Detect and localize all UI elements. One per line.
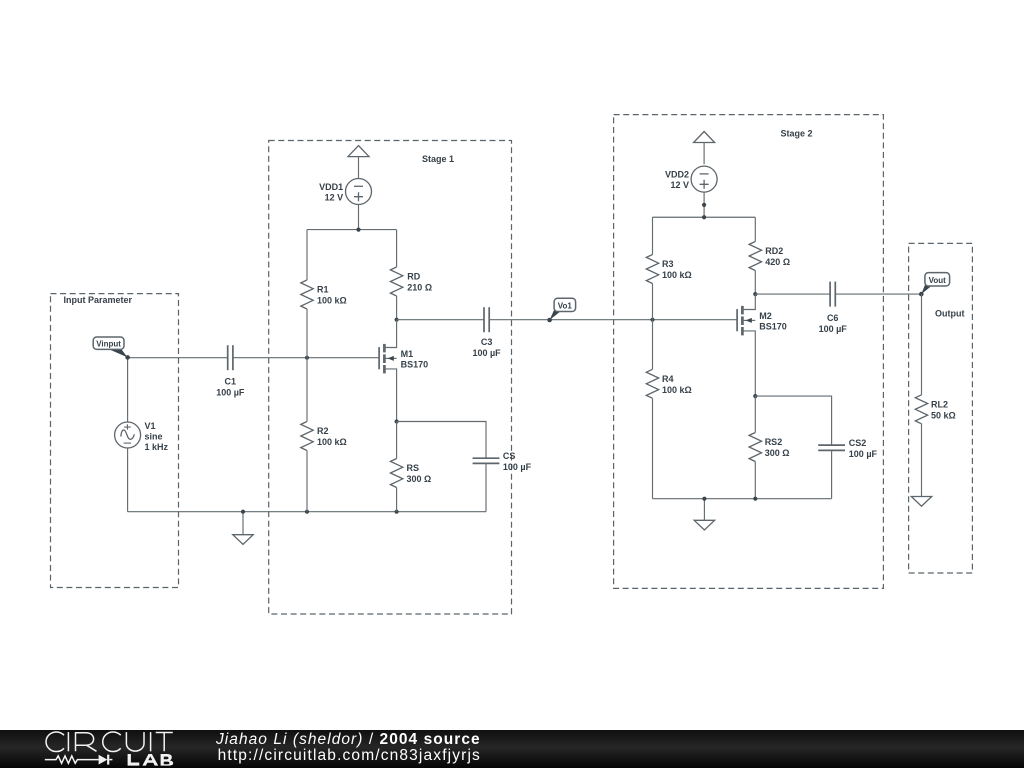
resistor R4 — [646, 320, 691, 499]
node: R2 bottom — [305, 510, 309, 514]
wire: source node to CS — [397, 422, 486, 459]
node: VDD2 tap — [702, 215, 706, 219]
wire: Vinput node to C1 — [128, 357, 228, 359]
resistor RS — [390, 422, 431, 512]
resistor R2 — [301, 358, 347, 512]
svg-text:Jiahao Li (sheldor) / 2004 sou: Jiahao Li (sheldor) / 2004 source — [215, 731, 481, 748]
capacitor C1 — [216, 345, 245, 397]
wire: C6 to Vout node — [835, 293, 921, 295]
wire: Vinput node down to V1 — [127, 358, 129, 422]
enclosure: Output box — [909, 243, 973, 573]
wire: source node to CS2 — [755, 396, 831, 445]
wire: VDD2 to supply rail — [703, 192, 705, 217]
transistor M1 — [379, 320, 428, 422]
flag Vinput — [93, 337, 130, 360]
node: VDD2 pin joint — [702, 203, 706, 207]
capacitor C6 — [819, 282, 848, 334]
CircuitLab logo — [46, 732, 173, 752]
svg-text:http://circuitlab.com/cn83jaxf: http://circuitlab.com/cn83jaxfjyrjs — [218, 747, 481, 764]
wire: C3 to M2 gate — [489, 319, 737, 321]
node: M2 source — [753, 394, 757, 398]
wire: stage 2 supply rail — [653, 216, 756, 218]
node: VDD1 tap — [356, 228, 360, 232]
logo LAB letters — [128, 754, 174, 766]
wire: CS2 to ground rail — [831, 450, 833, 498]
footer bar — [0, 730, 1024, 768]
enclosure: Stage 1 box — [269, 141, 512, 615]
resistor RD2 — [749, 217, 790, 294]
node: RS bottom — [395, 510, 399, 514]
node: RS2 bottom — [753, 497, 757, 501]
wire: VDD1 to supply rail — [358, 205, 360, 230]
node: gate / R1 / R2 junction — [305, 356, 309, 360]
enclosure: Stage 2 box — [614, 115, 884, 589]
wire: stage 1 ground rail — [128, 511, 486, 513]
resistor RS2 — [749, 396, 789, 499]
wire: C1 to M1 gate — [233, 357, 379, 359]
voltage source V1 — [115, 421, 169, 452]
node: M1 drain / output — [395, 318, 399, 322]
node: R3 / R4 / M2 gate junction — [650, 318, 654, 322]
node: M1 source — [395, 419, 399, 423]
voltage source VDD1 — [319, 179, 371, 205]
wire: stage 1 supply rail — [307, 229, 397, 231]
wire: drain node to C6 — [755, 293, 830, 295]
ground (output) — [911, 497, 931, 507]
capacitor CS2 — [818, 438, 877, 459]
flag Vout — [919, 273, 950, 297]
wire: stage 2 ground rail — [653, 498, 832, 500]
flag Vo1 — [547, 298, 575, 322]
capacitor CS — [473, 451, 532, 472]
power flag VDD1 — [348, 146, 369, 179]
power flag VDD2 — [694, 132, 715, 165]
resistor RD — [390, 230, 432, 320]
wire: V1 to ground rail — [127, 448, 129, 512]
resistor R3 — [646, 217, 691, 319]
wire: CS to ground rail — [485, 463, 487, 511]
resistor R1 — [301, 230, 347, 358]
ground (input stage) — [233, 512, 253, 545]
transistor M2 — [737, 294, 787, 396]
node: ground tap (stage 2) — [702, 497, 706, 501]
capacitor C3 — [472, 307, 501, 358]
enclosure: Input Parameter box — [51, 294, 179, 588]
voltage source VDD2 — [665, 166, 717, 192]
resistor RL2 — [915, 294, 955, 496]
node: M2 drain / output — [753, 292, 757, 296]
node: ground tap — [241, 510, 245, 514]
wire: drain node to C3 — [397, 319, 484, 321]
ground (stage 2) — [694, 499, 714, 530]
